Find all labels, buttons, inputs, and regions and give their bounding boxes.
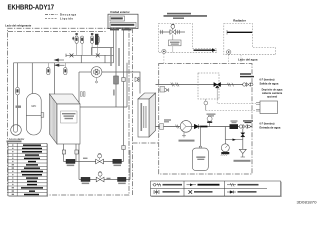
node label A.B xyxy=(16,106,22,108)
service valve X2 xyxy=(96,54,100,58)
flow arrow on branch xyxy=(233,139,237,141)
muffler on gas pipe xyxy=(114,76,119,84)
svg-text:6 F (hembra): 6 F (hembra) xyxy=(260,78,275,81)
DHW stub upper xyxy=(256,103,260,105)
flow arrow upper xyxy=(55,59,65,61)
water inlet pipe xyxy=(156,126,253,128)
run1 label xyxy=(83,158,88,159)
drain label xyxy=(234,160,251,162)
wire gas pipe a xyxy=(113,29,115,63)
run2 filter F3 xyxy=(81,177,90,181)
wire line to accumulator b xyxy=(17,63,19,126)
shutoff label xyxy=(240,73,251,74)
drain valve branch xyxy=(242,129,244,150)
run1 pipe xyxy=(64,161,124,163)
fill water dashed box xyxy=(159,24,217,53)
filter label xyxy=(231,120,238,121)
accumulator xyxy=(11,125,22,136)
inlet flex coupling xyxy=(176,125,180,129)
fill pipe tick left xyxy=(161,30,163,34)
stub fitting left xyxy=(62,150,65,154)
dashed ACS supply line xyxy=(217,99,256,104)
safety valve label xyxy=(207,114,216,115)
run2 pipe xyxy=(79,150,130,180)
run1 motor valve M1 xyxy=(96,153,104,163)
vessel label xyxy=(196,156,205,158)
outlet shutoff valve xyxy=(243,83,253,87)
wire HX right header xyxy=(80,106,127,108)
svg-text:6 F (hembra): 6 F (hembra) xyxy=(260,123,275,126)
legend sym r2c2 xyxy=(189,190,193,194)
svg-text:Líquido: Líquido xyxy=(60,17,73,21)
run2 filter F4 xyxy=(118,177,127,181)
radiator dashed box xyxy=(224,24,276,55)
fill valve with gauge xyxy=(170,24,176,34)
purge circle under vessel box xyxy=(204,99,208,111)
run2 label xyxy=(107,178,111,179)
frame port arrows xyxy=(72,36,74,40)
check valve (black) xyxy=(194,124,198,129)
fill label box xyxy=(169,40,182,46)
port label gas xyxy=(110,29,119,31)
dashed ACS return line xyxy=(206,110,256,112)
wire line to accumulator a xyxy=(13,63,15,125)
svg-text:Descarga: Descarga xyxy=(60,13,77,17)
wire 4way right line to HX-B xyxy=(102,72,140,94)
4-way valve U2 xyxy=(91,67,102,83)
inlet shutoff valve xyxy=(239,124,250,128)
wire compressor riser xyxy=(31,63,33,94)
drain funnel xyxy=(239,149,246,157)
inlet start fitting xyxy=(160,124,164,130)
sensor capsule R1 xyxy=(75,36,78,55)
HX A bottom stub right xyxy=(75,144,77,162)
3-way valve (black) xyxy=(214,82,221,88)
sensor capsule R2 xyxy=(81,36,84,55)
fill meter circle xyxy=(162,49,166,53)
service valve X1 xyxy=(70,54,74,58)
legend sym r2c3 xyxy=(227,191,236,193)
pipe size label 2 xyxy=(118,48,119,66)
outlet start fitting xyxy=(160,87,165,93)
wire gas pipe b xyxy=(115,29,117,107)
capsule label 2 xyxy=(91,33,93,35)
outdoor unit U1 box xyxy=(108,14,138,28)
bottom legend box xyxy=(151,181,282,197)
stub fitting right xyxy=(75,150,78,154)
thick pipe segment xyxy=(200,126,208,128)
run1 filter F1 xyxy=(66,159,75,163)
capsule label 1 xyxy=(75,33,77,35)
wire service stub 1 xyxy=(66,54,114,63)
table row numbers xyxy=(12,144,14,195)
plate HX A isometric xyxy=(50,94,81,144)
DHW stub lower xyxy=(256,109,260,111)
DHW tank box xyxy=(260,101,278,114)
fill connection drop xyxy=(163,54,165,64)
muffler label xyxy=(113,90,114,96)
legend sym r1c3 xyxy=(227,183,236,186)
fitting on liquid pipe lower xyxy=(122,146,125,150)
svg-text:Salida de agua: Salida de agua xyxy=(260,81,279,85)
legend sym r1c2 xyxy=(187,184,197,186)
bridge dash line xyxy=(133,142,159,144)
pump drain label xyxy=(179,140,195,142)
water outlet pipe xyxy=(156,84,253,86)
compressor M/C xyxy=(26,93,44,135)
sensor capsule R6 xyxy=(64,63,67,75)
gauge branch xyxy=(225,127,243,140)
valve on HX B inlet xyxy=(135,77,139,82)
run1 filter F2 xyxy=(113,159,122,163)
inner top edge of frame xyxy=(8,31,106,33)
legend line samples xyxy=(45,14,58,18)
run2 motor valve M2 xyxy=(96,172,104,182)
svg-text:Radiador: Radiador xyxy=(233,19,246,23)
fill pipe tick right xyxy=(178,30,180,34)
radiator element (thick line) xyxy=(227,31,252,33)
right frame (water side) xyxy=(159,64,252,175)
wire liquid pipe xyxy=(123,29,125,162)
fitting on liquid pipe upper xyxy=(122,78,125,82)
fill flow arrow xyxy=(194,49,213,51)
legend sym r2c1 xyxy=(153,190,160,195)
svg-text:Lado del refrigerante: Lado del refrigerante xyxy=(5,24,32,27)
wire 4way left branch down to run2 xyxy=(78,72,80,180)
wire suction main line xyxy=(14,62,114,64)
inlet label xyxy=(164,119,171,120)
drain valve (black bowtie) xyxy=(241,133,245,137)
sensor capsule R7 on accumulator line xyxy=(16,87,20,95)
svg-text:EKHBRD-ADY17: EKHBRD-ADY17 xyxy=(8,5,55,12)
pump drain stub xyxy=(182,132,186,137)
wire service stub 2 xyxy=(104,55,106,63)
inlet filter (black) xyxy=(230,124,239,129)
parts table title xyxy=(7,141,22,143)
left frame second right edge xyxy=(132,28,134,195)
expansion vessel box (dashed) xyxy=(198,73,219,99)
fill drop line xyxy=(172,34,174,40)
expansion vessel (cylinder) xyxy=(192,127,208,171)
fill box drop to frame xyxy=(172,46,174,53)
wire liquid riser right xyxy=(126,63,128,107)
flow arrow lower xyxy=(55,64,65,66)
sensor capsule R4 xyxy=(96,36,99,55)
sensor capsule R3 xyxy=(91,36,94,55)
svg-text:3D081870: 3D081870 xyxy=(297,199,318,204)
svg-text:Acumulador: Acumulador xyxy=(9,137,25,141)
svg-text:M/C: M/C xyxy=(32,104,37,108)
fill pipe xyxy=(160,31,186,33)
port label liquid xyxy=(122,29,132,31)
inlet shutoff label xyxy=(243,120,253,121)
pump P1 xyxy=(180,121,192,133)
svg-text:Entrada de agua: Entrada de agua xyxy=(260,126,281,130)
safety valve SV1 xyxy=(207,116,212,126)
air purge valve xyxy=(159,88,169,92)
HX A bottom stub left xyxy=(63,144,65,162)
table description bars xyxy=(21,144,43,195)
fill water text xyxy=(167,13,191,15)
plate HX B isometric xyxy=(138,93,156,137)
wire HX-A suction riser xyxy=(54,63,56,94)
outdoor unit model box 1 xyxy=(110,16,125,21)
HX A top fittings xyxy=(80,92,82,96)
legend sym r1c1 xyxy=(153,183,162,186)
left frame (refrigerant side) xyxy=(8,28,129,195)
outlet flex coupling xyxy=(171,83,179,87)
wire 4way left line xyxy=(79,71,91,73)
HX B label xyxy=(141,103,143,131)
outlet flex right xyxy=(228,83,234,87)
outdoor unit model box 2 xyxy=(110,22,136,27)
radiator pump circle xyxy=(227,50,231,54)
sensor capsule R5 xyxy=(47,63,50,75)
pressure gauge G1 xyxy=(221,140,230,156)
pipe size label 1 xyxy=(110,48,111,66)
svg-text:Unidad exterior: Unidad exterior xyxy=(110,10,130,14)
svg-text:opcional: opcional xyxy=(267,95,278,98)
HX A label plate xyxy=(61,111,78,123)
parts table xyxy=(8,143,48,196)
radiator connection drops xyxy=(229,55,241,64)
wire discharge upper line xyxy=(92,48,114,56)
